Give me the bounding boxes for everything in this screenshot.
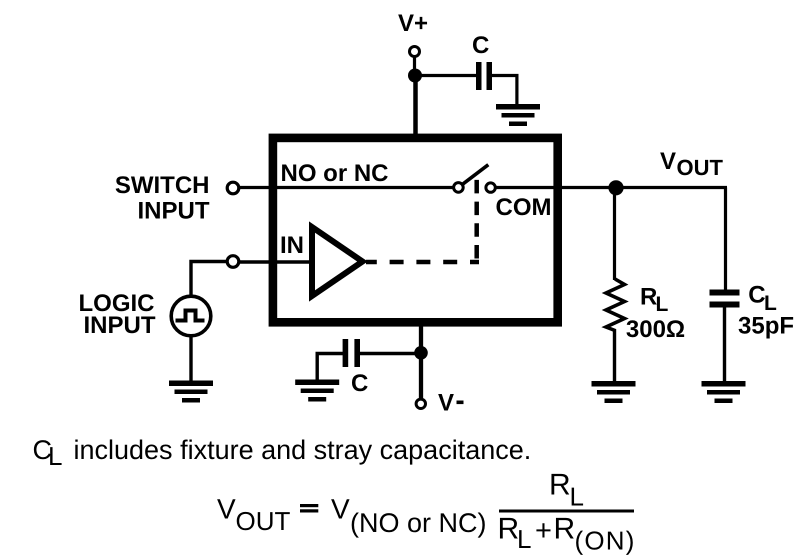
svg-text:L: L [48,441,62,471]
svg-text:includes fixture and stray cap: includes fixture and stray capacitance. [74,435,532,465]
svg-text:V: V [217,493,236,524]
svg-text:SWITCH: SWITCH [115,172,210,199]
svg-text:V+: V+ [398,10,428,37]
svg-text:L: L [517,524,531,554]
wire switch COM to VOUT node and CL [496,186,728,189]
IC box U1 [273,138,558,322]
ground (RL) [592,381,636,403]
capacitor CL [710,290,740,308]
wire SWITCH INPUT to switch pole [240,186,454,189]
wire VOUT node to resistor RL [613,188,616,281]
svg-text:R: R [554,513,576,546]
label V- [438,390,464,417]
note: CL includes fixture and stray capacitance [33,435,532,471]
ground (CL) [702,381,746,403]
junction node V+ [408,69,422,83]
svg-text:OUT: OUT [236,506,291,536]
label SWITCH INPUT [115,172,210,225]
formula fraction denominator RL + R(ON) [498,513,636,556]
formula fraction numerator RL [549,469,584,512]
wire RL to ground [613,329,616,382]
junction node V- [414,346,428,360]
formula fraction bar [499,510,634,513]
svg-text:V: V [331,493,350,524]
switch S1 COM contact [486,183,495,192]
pulse source V1 [171,296,211,336]
dashed control line from buffer to switch [366,180,479,262]
svg-text:INPUT: INPUT [138,198,210,225]
label CL [748,282,777,316]
buffer amplifier A1 [312,227,363,296]
ground (V- bypass C) [295,380,339,402]
svg-text:INPUT: INPUT [84,312,156,339]
switch S1 pole NO/NC contact [454,183,464,193]
resistor RL [606,279,625,331]
pulse waveform symbol [176,311,205,321]
svg-text:L: L [656,293,669,316]
ground (logic input) [169,381,213,403]
wire V+ node to capacitor C [415,74,477,77]
svg-text:C: C [748,282,765,309]
svg-text:V: V [438,390,454,417]
wire CL to ground [723,307,726,382]
wire V+ node to box top [413,76,418,139]
formula VOUT = V(NO or NC) x RL/(RL+R(ON)) [217,493,487,538]
label RL [640,283,669,316]
svg-text:NO or NC: NO or NC [281,160,389,187]
label VOUT [660,148,724,180]
svg-text:+: + [535,515,552,547]
switch S1 blade [463,165,489,185]
wire LOGIC terminal to pulse source [191,262,227,296]
terminal LOGIC INPUT [227,256,239,268]
svg-text:OUT: OUT [677,155,724,180]
wire box bottom to V- terminal [419,319,423,399]
svg-text:(ON): (ON) [575,526,636,556]
wire pulse source to ground [189,336,192,382]
wire capacitor C to ground [491,76,517,106]
ground (V+ bypass C) [496,104,540,126]
wire V+ terminal to node [413,57,416,72]
svg-text:C: C [472,32,489,59]
label LOGIC INPUT [79,290,156,339]
svg-text:(NO or NC): (NO or NC) [350,508,487,538]
svg-text:L: L [570,482,584,512]
wire LOGIC INPUT to buffer [240,260,311,263]
terminal SWITCH INPUT [227,182,239,194]
wire VOUT to capacitor CL [724,188,727,292]
capacitor C (V+ bypass) [476,62,492,90]
svg-text:IN: IN [280,232,304,259]
svg-text:35pF: 35pF [738,312,794,339]
wire C to ground [317,354,343,381]
svg-text:300Ω: 300Ω [626,316,685,343]
svg-text:R: R [498,513,520,546]
svg-text:COM: COM [496,194,552,221]
svg-text:C: C [351,370,368,397]
junction node VOUT [608,180,623,195]
wire C to V- node [359,352,417,356]
svg-text:R: R [549,469,571,502]
terminal V+ [410,47,420,57]
terminal V- [416,399,425,408]
capacitor C (V- bypass) [343,339,360,367]
svg-text:V: V [660,148,676,175]
